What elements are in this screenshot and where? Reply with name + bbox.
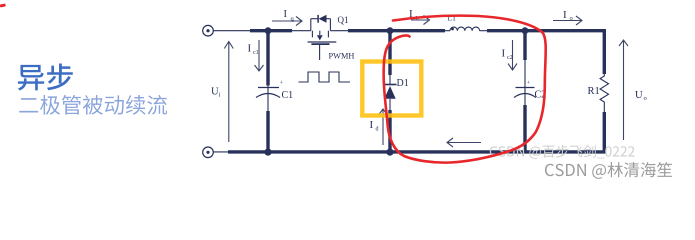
svg-text:Q1: Q1 [338, 15, 349, 25]
svg-text:D1: D1 [397, 78, 409, 89]
C2 branch wire upper thick [523, 29, 526, 60]
D1 branch wire lower thick [388, 110, 391, 152]
transistor Q1 left post [310, 19, 312, 31]
text: CSDN @林清海笙 width=128.9 [545, 162, 672, 179]
svg-text:I: I [370, 119, 374, 131]
svg-text:PWMH: PWMH [329, 51, 355, 60]
arrow Iq [272, 17, 302, 26]
wire top rail thick L1 to corner [487, 29, 606, 32]
resistor R1 zigzag [600, 74, 608, 104]
arrow freewheel current (bottom, leftwards) [447, 138, 481, 147]
inductor L1 [450, 27, 480, 31]
diode D1 cathode bar [384, 84, 397, 86]
text: CSDN @百步飞剑_0222 width=146.2 [490, 145, 635, 159]
capacitor C1 curved plate [256, 94, 280, 98]
Q1 drain stub [311, 31, 313, 38]
red corner mark [1, 4, 4, 8]
junction node bottom D1 [386, 149, 393, 156]
Q1 source stub [327, 31, 329, 38]
arrow IL [411, 16, 430, 25]
Q1 right post [329, 19, 331, 31]
D1 lead thin upper [389, 74, 391, 85]
yellow highlight box around D1 [362, 62, 421, 116]
bottom rail thin from terminal [214, 151, 231, 153]
inductor L1 phase dot [451, 28, 454, 31]
svg-text:d: d [376, 127, 379, 133]
junction node bottom-left [264, 149, 271, 156]
wire thin into Q1 [291, 30, 311, 32]
wire top rail thick to Q1 [250, 29, 292, 32]
Q1 gate line [311, 43, 329, 45]
capacitor C2 top plate [516, 87, 535, 89]
svg-text:i: i [219, 92, 221, 99]
capacitor C2 curved plate [514, 94, 536, 98]
input terminal bottom [203, 147, 214, 158]
svg-text:U: U [635, 90, 643, 101]
arrow Ui [224, 42, 233, 143]
svg-text:c1: c1 [253, 50, 259, 56]
Q1 gate wire [319, 44, 321, 60]
text: 异步 width=58.0 [18, 64, 73, 91]
arrow Io [553, 16, 582, 25]
D1 branch wire upper thick [388, 29, 391, 75]
svg-text:I: I [248, 43, 252, 55]
wire right side thick to bottom rail [603, 112, 606, 154]
Q1 channel line [308, 41, 337, 43]
diode D1 triangle [384, 86, 395, 99]
junction node top C2 [522, 27, 529, 34]
Q1 top wire left [311, 18, 318, 20]
Q1 body diode bar [317, 15, 319, 23]
input terminal top [203, 25, 214, 36]
C1 branch wire lower thick [266, 111, 269, 152]
arrow Ic2 [508, 40, 517, 70]
bottom rail thick [228, 150, 606, 153]
arrow Id [379, 109, 388, 145]
svg-text:R1: R1 [588, 86, 600, 97]
Q1 top wire right [326, 18, 330, 20]
svg-text:I: I [563, 9, 567, 21]
wire right side down to R1 [603, 29, 606, 74]
C1 branch wire upper [266, 29, 269, 86]
red annotation loop [1, 5, 546, 162]
wire thin to coil [444, 30, 450, 32]
svg-text:c2: c2 [507, 55, 513, 61]
C2 branch wire lower thick [523, 105, 526, 152]
Q1 body diode triangle [319, 15, 327, 23]
svg-text:C1: C1 [282, 90, 294, 101]
Q1 substrate arrow [319, 31, 321, 36]
wire thin below R1 [603, 104, 605, 114]
svg-text:o: o [570, 15, 573, 22]
svg-text:o: o [644, 95, 647, 102]
arrow Uo [619, 40, 628, 140]
svg-text:+: + [280, 80, 284, 86]
wire thin out of Q1 [330, 30, 349, 32]
wire thin from coil [480, 30, 488, 32]
svg-text:I: I [284, 9, 288, 20]
C2 lead thin upper [524, 58, 526, 107]
text: 二极管被动续流 width=149.8 [19, 95, 167, 115]
svg-text:I: I [502, 48, 506, 60]
svg-text:+: + [527, 80, 531, 86]
capacitor C1 top plate [258, 87, 279, 89]
wire top rail thin from terminal [214, 30, 253, 32]
C1 lead thin [267, 80, 269, 113]
D1 lead thin lower [389, 99, 391, 112]
junction node top-left [265, 27, 272, 34]
wire top rail thick Q1 to L1 [348, 29, 445, 32]
current/voltage arrows [224, 16, 628, 148]
PWM square wave [299, 72, 351, 82]
junction node top D1 [387, 27, 394, 34]
arrow Ic1 [255, 40, 264, 71]
